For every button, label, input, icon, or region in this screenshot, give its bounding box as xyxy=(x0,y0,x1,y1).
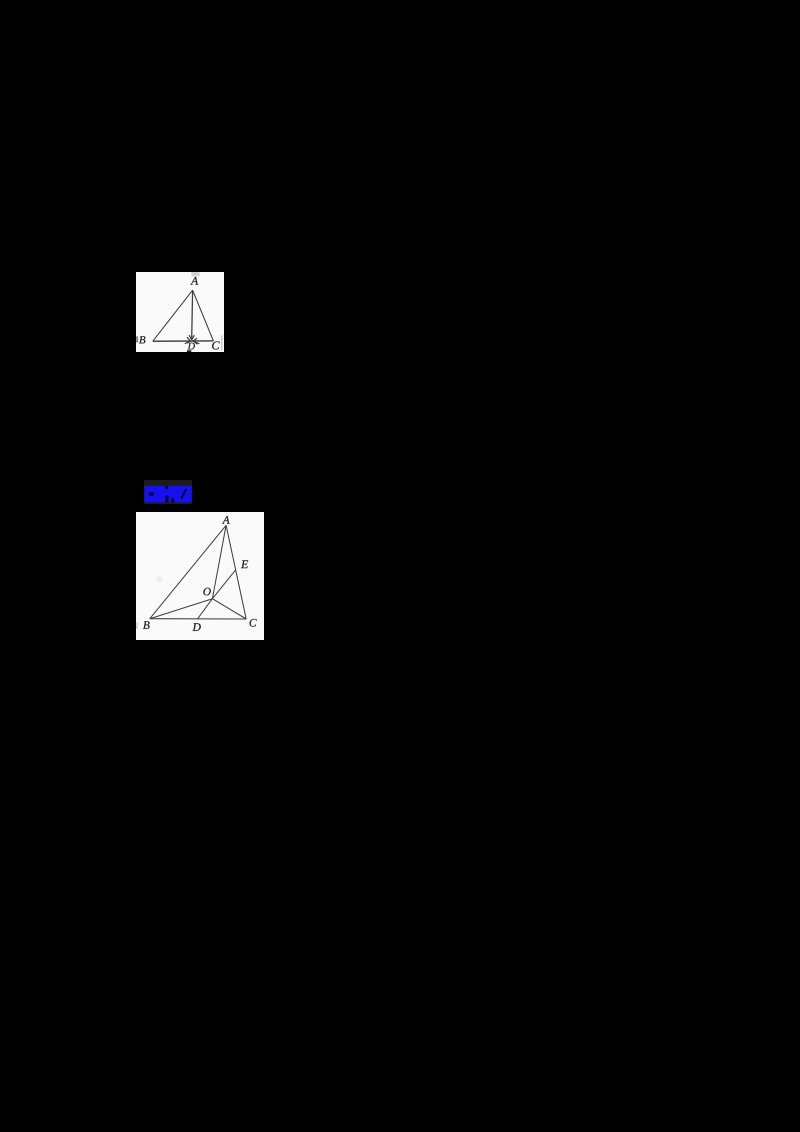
side AC xyxy=(193,290,214,341)
side AC xyxy=(226,525,246,619)
arrowhead down at D xyxy=(189,335,194,340)
label D xyxy=(188,343,195,350)
arrowhead left at D (from C) xyxy=(193,338,197,344)
cevian AD xyxy=(191,290,194,339)
tick SW at D xyxy=(185,341,192,344)
blue glyph block xyxy=(144,485,193,504)
side AB xyxy=(150,525,226,618)
segment OE xyxy=(212,570,235,599)
figure 2 white panel xyxy=(136,512,264,640)
label O xyxy=(203,588,210,596)
label A xyxy=(190,277,198,285)
base BC xyxy=(150,618,246,620)
dark blob under D xyxy=(187,350,191,352)
gray bar left edge near B xyxy=(136,623,138,629)
diagonal slash on right glyph xyxy=(181,489,188,499)
label B xyxy=(139,336,145,343)
highlight strip behind blue text xyxy=(144,480,192,504)
gray line right of C xyxy=(221,335,222,350)
segment BO xyxy=(150,599,213,619)
blue text blob xyxy=(145,486,192,503)
segment OD xyxy=(198,599,213,619)
segment OC xyxy=(212,599,246,619)
notch bottom under glyph3 xyxy=(171,498,174,502)
notch glyph1 xyxy=(149,492,154,496)
label A xyxy=(222,516,230,524)
gray bar left edge near B xyxy=(136,336,138,342)
notch between glyph2/3 bottom xyxy=(165,496,169,503)
figure 1 white panel xyxy=(136,272,224,352)
side AB xyxy=(153,290,193,341)
faint blotch left of AB xyxy=(157,577,163,583)
label E xyxy=(241,560,248,568)
top dent xyxy=(165,486,168,489)
base BC xyxy=(153,340,214,342)
tick SE at D xyxy=(192,341,199,344)
label B xyxy=(143,621,150,628)
arrowhead right at D (from B) xyxy=(187,337,190,343)
label C xyxy=(212,341,219,349)
label C xyxy=(250,619,257,627)
gray smudge above A xyxy=(191,272,199,276)
label D xyxy=(192,623,200,631)
segment AO xyxy=(212,525,226,598)
